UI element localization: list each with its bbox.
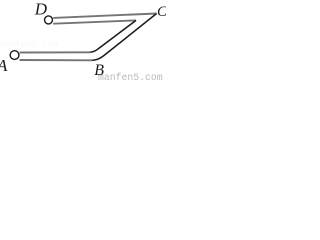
bottom road lower edge wire: [20, 59, 93, 61]
outer diagonal wire B-C with rounded bend: [92, 14, 157, 61]
svg-text:A: A: [0, 56, 8, 75]
top road upper edge wire D-C: [53, 14, 156, 18]
svg-text:C: C: [157, 4, 166, 20]
inner diagonal wire with rounded bend: [89, 20, 136, 52]
svg-text:B: B: [94, 62, 104, 79]
svg-text:D: D: [34, 0, 48, 19]
svg-text:manfen5.com: manfen5.com: [98, 72, 163, 80]
circle at D: [45, 16, 53, 24]
circle at A: [10, 51, 19, 60]
svg-text:manfen5.com: manfen5.com: [0, 40, 58, 50]
top road lower edge wire: [53, 20, 136, 23]
background: [0, 0, 166, 80]
bottom road upper edge wire A-B: [20, 51, 91, 53]
